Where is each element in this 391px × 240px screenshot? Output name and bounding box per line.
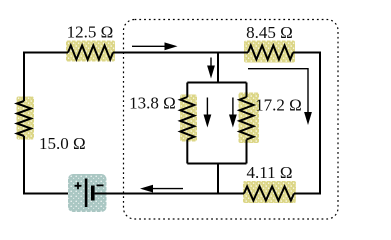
- wire left side down to bottom and to battery: [24, 136, 86, 194]
- wire parallel box right leads: [246, 83, 248, 164]
- wire parallel box top: [187, 82, 246, 84]
- highlight for resistor R1 12.5 ohm: [66, 41, 115, 62]
- battery B1 minus sign: [97, 184, 104, 186]
- wire parallel box left leads: [186, 83, 188, 164]
- wire top-right corner down right side: [293, 53, 320, 194]
- current arrow hook down right branch: [248, 69, 312, 125]
- resistor R2 8.45 ohm zigzag: [248, 46, 293, 60]
- resistor R6 15.0 ohm zigzag: [17, 101, 31, 136]
- highlight for resistor R4 17.2 ohm: [239, 93, 260, 144]
- battery B1 plus sign: [75, 182, 82, 189]
- svg-text:8.45 Ω: 8.45 Ω: [246, 23, 293, 42]
- wire top-left with left lead down to R6: [24, 53, 68, 102]
- battery B1 short negative plate: [91, 186, 95, 201]
- battery B1 long positive plate: [85, 179, 88, 208]
- svg-text:15.0 Ω: 15.0 Ω: [39, 134, 86, 153]
- current arrow right along top wire: [132, 42, 178, 50]
- current arrow down through R4 branch: [229, 98, 237, 128]
- current arrow down through R3 branch: [204, 98, 212, 128]
- wire bottom from battery to R5: [95, 193, 244, 195]
- resistor R4 17.2 ohm zigzag: [240, 97, 254, 140]
- wire top middle: [113, 52, 248, 54]
- current arrow left along bottom wire: [140, 185, 183, 193]
- highlight for resistor R5 4.11 ohm: [243, 181, 296, 203]
- highlight for resistor R6 15.0 ohm: [17, 97, 35, 140]
- resistor R1 12.5 ohm zigzag: [68, 46, 113, 60]
- wire drop from parallel box bottom to bottom wire: [217, 164, 219, 194]
- svg-text:12.5 Ω: 12.5 Ω: [67, 23, 114, 42]
- highlight for resistor R3 13.8 ohm: [180, 95, 197, 142]
- resistor R3 13.8 ohm zigzag: [180, 97, 194, 140]
- svg-text:17.2 Ω: 17.2 Ω: [255, 96, 302, 115]
- highlight for resistor R2 8.45 ohm: [244, 41, 295, 63]
- wire parallel box bottom: [187, 163, 246, 165]
- resistor R5 4.11 ohm zigzag: [244, 187, 294, 201]
- current arrow down into parallel box node: [207, 58, 215, 79]
- dashed boundary box: [124, 20, 339, 220]
- wire junction drop from top wire into parallel box: [217, 53, 219, 83]
- svg-text:13.8 Ω: 13.8 Ω: [129, 94, 176, 113]
- svg-text:4.11 Ω: 4.11 Ω: [246, 163, 292, 182]
- battery B1 body: [68, 174, 107, 212]
